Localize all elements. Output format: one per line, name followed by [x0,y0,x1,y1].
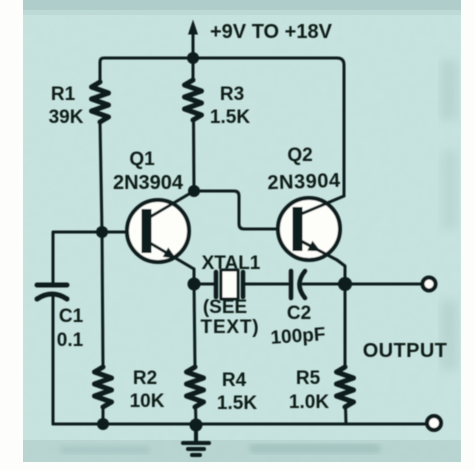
svg-text:100pF: 100pF [270,324,326,349]
wire R1 to base node [100,122,102,232]
svg-text:1.5K: 1.5K [217,393,257,414]
svg-text:R3: R3 [220,84,244,105]
svg-text:39K: 39K [49,107,84,128]
resistor R4 [187,284,204,425]
svg-text:R4: R4 [222,370,247,391]
svg-text:1.0K: 1.0K [289,392,329,413]
svg-text:C2: C2 [287,303,311,324]
svg-text:0.1: 0.1 [57,330,84,351]
transistor Q1 [102,191,194,284]
wire ground rail [53,423,427,426]
wire C1 to ground rail [52,295,55,424]
junction dot output node [338,277,352,291]
bottom darker scan band [23,440,461,462]
wire right drop [337,58,344,196]
svg-text:XTAL1: XTAL1 [202,253,261,274]
svg-text:1.5K: 1.5K [210,107,250,128]
top darker scan band [23,0,461,10]
svg-text:R1: R1 [51,84,76,105]
svg-text:OUTPUT: OUTPUT [363,340,448,362]
junction dot R2 bottom [97,418,109,430]
svg-text:2N3904: 2N3904 [267,170,341,195]
white margins [0,0,23,470]
svg-text:10K: 10K [130,391,165,412]
svg-text:2N3904: 2N3904 [113,172,184,194]
terminal output bottom [427,416,441,430]
svg-text:R2: R2 [133,368,157,389]
svg-text:(SEE: (SEE [203,297,247,318]
resistor R2 [95,232,112,424]
crystal XTAL1 [194,270,288,299]
junction dot crystal node [188,278,201,291]
junction dot Q1 collector [188,185,200,197]
svg-text:C1: C1 [59,306,84,327]
resistor R3 [185,58,202,191]
capacitor C1 [37,285,67,299]
resistor R1 [92,82,109,122]
junction dot supply [187,52,199,64]
resistor R5 [337,284,354,424]
ground [183,425,209,455]
transistor Q2 [278,196,345,284]
capacitor C2 [291,271,338,298]
svg-text:R5: R5 [296,368,321,389]
wire Q1 collector to Q2 base [194,191,279,229]
svg-text:Q2: Q2 [287,145,312,166]
junction dot ground node [190,419,203,432]
wire top rail [100,58,337,82]
svg-text:+9V TO +18V: +9V TO +18V [210,21,333,43]
svg-text:TEXT): TEXT) [201,317,260,338]
junction dot base node [96,226,108,238]
wire base node to C1 [53,232,102,283]
faint bleed-through right side [440,60,458,370]
wire output node to terminal [345,283,422,286]
svg-text:Q1: Q1 [129,149,155,170]
power arrow [188,20,198,59]
terminal output top [423,278,436,291]
